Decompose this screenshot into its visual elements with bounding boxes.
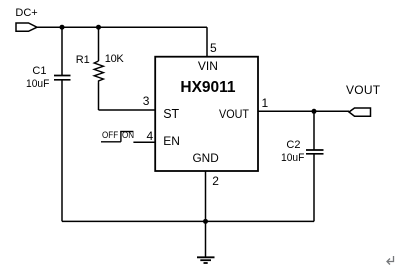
resistor R1 bbox=[94, 61, 103, 83]
label C1 value 10uF bbox=[26, 79, 49, 90]
label R1 value 10K bbox=[105, 54, 124, 65]
paragraph return mark bbox=[387, 256, 394, 265]
connector DC+ bbox=[16, 23, 37, 31]
label R1 bbox=[76, 55, 90, 66]
junction at bottom rail bbox=[203, 219, 208, 224]
label ST bbox=[163, 108, 179, 121]
label VIN bbox=[198, 60, 218, 72]
ground symbol bbox=[197, 257, 215, 263]
label OFF bbox=[102, 131, 118, 141]
wire to EN pin 4 bbox=[133, 141, 155, 143]
connector VOUT bbox=[349, 108, 371, 116]
wire pin 5 drop bbox=[206, 27, 208, 57]
wire top rail from DC+ to VIN pin bbox=[37, 26, 207, 28]
pin number 1 bbox=[262, 97, 269, 109]
junction at R1 top bbox=[96, 25, 101, 30]
pin number 4 bbox=[147, 130, 154, 142]
pin number 5 bbox=[210, 42, 217, 54]
label EN bbox=[163, 135, 180, 147]
wire GND pin 2 drop bbox=[205, 171, 207, 257]
label GND bbox=[193, 153, 219, 165]
wire C2 top lead bbox=[313, 111, 315, 150]
node DC+ label bbox=[15, 8, 37, 19]
wire C1 top lead bbox=[61, 27, 63, 75]
node VOUT label bbox=[346, 84, 380, 96]
junction at C1 top bbox=[60, 25, 65, 30]
label C2 bbox=[286, 140, 300, 151]
label ON bbox=[122, 131, 134, 141]
capacitor C2 bbox=[306, 150, 324, 154]
junction at C2 top bbox=[312, 109, 317, 114]
wire C1 bottom lead bbox=[61, 80, 63, 222]
signal OFF/ON edge symbol bbox=[101, 132, 133, 142]
wire C2 bottom lead bbox=[313, 154, 315, 222]
wire bottom rail bbox=[62, 220, 314, 222]
pin number 3 bbox=[143, 95, 150, 107]
wire to ST pin 3 bbox=[99, 109, 156, 111]
label HX9011 bbox=[180, 80, 235, 96]
wire R1 bottom lead bbox=[98, 83, 100, 110]
wire R1 top lead bbox=[98, 27, 100, 61]
pin number 2 bbox=[212, 175, 219, 187]
label C2 value 10uF bbox=[281, 153, 304, 164]
capacitor C1 bbox=[54, 76, 71, 80]
IC U1 HX9011 body bbox=[155, 57, 258, 171]
label C1 bbox=[32, 66, 46, 77]
label VOUT inside bbox=[219, 108, 249, 120]
wire VOUT pin 1 to connector bbox=[258, 110, 349, 112]
